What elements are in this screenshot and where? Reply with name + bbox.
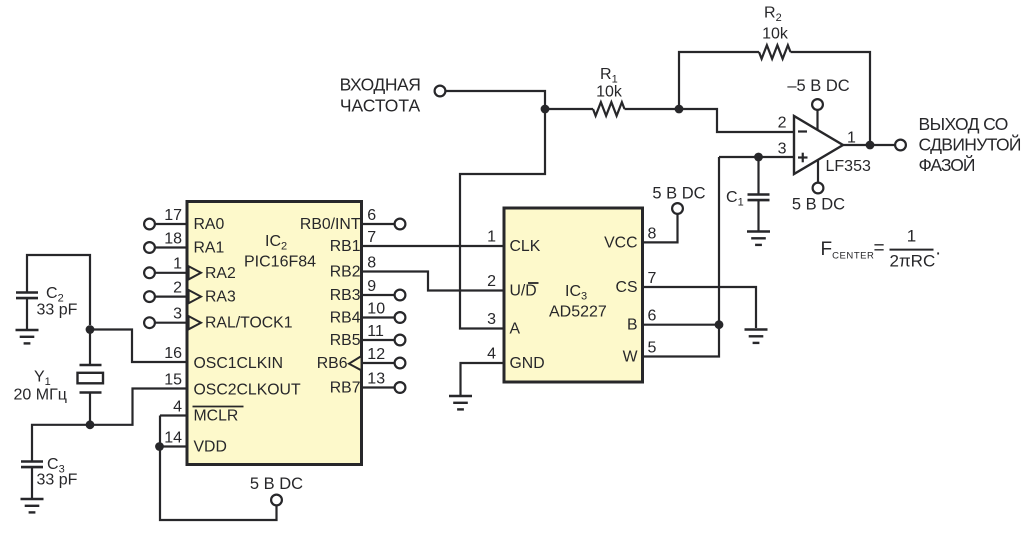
wire to op-amp non-inverting input — [719, 156, 794, 158]
svg-text:8: 8 — [648, 225, 657, 242]
terminal -5V supply — [812, 99, 823, 110]
wire MCLR-VDD to 5V terminal — [160, 416, 277, 521]
svg-text:LF353: LF353 — [826, 158, 871, 175]
svg-text:17: 17 — [164, 207, 182, 224]
terminal +5V supply (op-amp) — [813, 183, 824, 194]
wire RB2 to IC3 U/D — [361, 272, 505, 291]
capacitor C2 — [16, 293, 38, 299]
pin 9 RB3 — [330, 278, 406, 304]
wire C1 bottom lead — [757, 200, 759, 230]
pin 6 RB0/INT — [300, 207, 405, 233]
svg-text:RAL/TOCK1: RAL/TOCK1 — [205, 315, 293, 332]
svg-text:6: 6 — [367, 207, 376, 224]
node output junction — [866, 141, 875, 150]
pin 16 OSC1CLKIN label — [164, 345, 283, 372]
svg-text:2πRC: 2πRC — [890, 252, 936, 271]
node R1/R2/op-amp junction — [675, 105, 684, 114]
svg-text:1: 1 — [907, 227, 916, 246]
svg-text:3: 3 — [173, 306, 182, 323]
pin 13 RB7 — [330, 370, 406, 396]
wire RB1 to IC3 CLK — [361, 245, 505, 247]
node VDD junction — [155, 442, 164, 451]
svg-text:MCLR: MCLR — [194, 408, 239, 425]
wire C2 bottom lead — [26, 298, 28, 329]
svg-text:14: 14 — [164, 429, 182, 446]
svg-text:4: 4 — [487, 346, 496, 363]
op-amp plus symbol — [798, 153, 808, 163]
svg-text:1: 1 — [173, 256, 182, 273]
svg-text:OSC1CLKIN: OSC1CLKIN — [194, 355, 284, 372]
svg-text:RB4: RB4 — [330, 310, 361, 327]
svg-text:U/D: U/D — [510, 283, 537, 300]
svg-text:20 МГц: 20 МГц — [14, 387, 67, 404]
svg-text:RA1: RA1 — [194, 240, 225, 257]
svg-text:RB7: RB7 — [330, 380, 361, 397]
wire C2 top lead to crystal node — [27, 255, 90, 325]
svg-text:VDD: VDD — [194, 439, 227, 456]
svg-text:1: 1 — [487, 229, 496, 246]
svg-text:15: 15 — [164, 371, 182, 388]
svg-text:7: 7 — [367, 229, 376, 246]
svg-text:W: W — [623, 349, 638, 366]
op-amp minus symbol — [798, 130, 807, 132]
svg-text:RA3: RA3 — [205, 289, 236, 306]
svg-text:.: . — [936, 239, 941, 260]
wire crystal node to C3 — [32, 425, 90, 461]
IC3 pin 2 U/D — [487, 273, 538, 300]
svg-text:A: A — [510, 321, 521, 338]
pin 8 RB2 — [330, 254, 377, 280]
op-amp U1 LF353 power wires — [816, 110, 818, 131]
svg-text:8: 8 — [367, 254, 376, 271]
svg-text:ЧАСТОТА: ЧАСТОТА — [340, 96, 421, 116]
pin 3 RAL/TOCK1 terminal — [144, 306, 293, 332]
svg-text:5 В DC: 5 В DC — [652, 185, 705, 203]
pin 10 RB4 — [330, 300, 406, 326]
pin 7 RB1 — [330, 229, 377, 255]
svg-text:RA0: RA0 — [194, 216, 225, 233]
ground below C1 — [747, 232, 770, 245]
svg-text:RB1: RB1 — [330, 238, 361, 255]
svg-text:OSC2CLKOUT: OSC2CLKOUT — [194, 382, 301, 399]
svg-text:VCC: VCC — [604, 234, 637, 251]
svg-text:ФАЗОЙ: ФАЗОЙ — [919, 154, 975, 175]
svg-text:13: 13 — [367, 370, 385, 387]
svg-text:2: 2 — [487, 273, 496, 290]
svg-text:2: 2 — [173, 279, 182, 296]
svg-text:5 В DC: 5 В DC — [250, 475, 303, 493]
wire crystal top to OSC1CLKIN pin 16 — [90, 330, 188, 363]
svg-text:18: 18 — [164, 230, 182, 247]
svg-text:33 pF: 33 pF — [37, 472, 78, 489]
svg-text:RB3: RB3 — [330, 287, 361, 304]
svg-text:CLK: CLK — [510, 238, 541, 255]
ground below C3 — [21, 499, 44, 512]
pin 14 VDD — [160, 429, 227, 455]
op-amp U1 LF353 triangle — [794, 116, 843, 174]
svg-text:2: 2 — [778, 115, 787, 132]
terminal input frequency — [435, 86, 446, 97]
wire IC3 B to node — [641, 324, 719, 326]
wire node to R1 left lead — [545, 108, 593, 110]
capacitor C1 — [748, 195, 770, 201]
wire feedback node up to R2 — [679, 52, 759, 109]
IC3 pin 6 B — [627, 308, 657, 334]
pin 4 MCLR — [160, 398, 244, 424]
pin 18 RA1 terminal — [144, 230, 224, 256]
svg-text:RB5: RB5 — [330, 332, 361, 349]
svg-text:AD5227: AD5227 — [549, 304, 607, 321]
svg-text:10: 10 — [367, 300, 385, 317]
node B/W junction — [715, 320, 724, 329]
ground for IC3 GND — [449, 396, 472, 409]
pin 15 OSC2CLKOUT label — [164, 371, 301, 398]
terminal 5V supply for PIC — [271, 495, 282, 506]
svg-text:GND: GND — [510, 355, 545, 372]
node +input/C1 junction — [754, 153, 763, 162]
IC U3 AD5227 body — [504, 208, 643, 382]
svg-text:7: 7 — [648, 270, 657, 287]
wire R2 to output node — [791, 52, 871, 145]
svg-text:ВЫХОД СО: ВЫХОД СО — [919, 114, 1008, 134]
svg-text:RA2: RA2 — [205, 265, 236, 282]
svg-text:3: 3 — [778, 141, 787, 158]
node input/R1 junction — [541, 105, 550, 114]
node crystal top (OSC1CLKIN net) — [86, 325, 95, 334]
node crystal bottom (OSC2CLKOUT net) — [86, 420, 95, 429]
IC3 pin 1 CLK — [487, 229, 541, 256]
resistor R1 — [593, 102, 625, 116]
svg-text:3: 3 — [487, 311, 496, 328]
svg-text:12: 12 — [367, 346, 385, 363]
wire OSC2CLKOUT pin 15 to crystal bottom — [90, 389, 188, 425]
IC3 pin 5 W — [623, 340, 657, 366]
svg-text:16: 16 — [164, 345, 182, 362]
ground below C2 — [16, 330, 39, 343]
svg-text:6: 6 — [648, 308, 657, 325]
svg-text:9: 9 — [367, 278, 376, 295]
ground for CS — [745, 330, 768, 343]
wire input terminal to R1 node — [446, 91, 546, 109]
IC U2 PIC16F84 body — [187, 202, 362, 465]
resistor R2 — [759, 45, 791, 59]
pin 2 RA3 terminal — [144, 279, 236, 305]
IC3 pin 4 GND — [487, 346, 545, 373]
svg-text:11: 11 — [367, 323, 384, 340]
svg-text:10k: 10k — [596, 84, 623, 101]
wire input node to IC3 pin A — [460, 109, 545, 329]
svg-text:B: B — [627, 317, 638, 334]
svg-text:RB0/INT: RB0/INT — [300, 216, 361, 233]
crystal Y1 — [78, 330, 104, 426]
pin 17 RA0 terminal — [144, 207, 224, 233]
pin 11 RB5 — [330, 323, 406, 349]
IC3 pin 8 VCC — [604, 225, 656, 251]
wire IC3 CS to ground — [641, 287, 756, 328]
svg-text:10k: 10k — [762, 26, 789, 43]
pin 1 RA2 terminal — [144, 256, 236, 282]
capacitor C3 — [21, 462, 43, 468]
svg-text:33 pF: 33 pF — [37, 302, 78, 319]
wire C3 bottom lead — [31, 467, 33, 498]
wire IC3 W up to op-amp + input — [641, 157, 719, 357]
wire C1 top lead — [757, 157, 759, 194]
svg-text:PIC16F84: PIC16F84 — [244, 254, 316, 271]
svg-text:RB6: RB6 — [317, 355, 348, 372]
svg-text:=: = — [874, 238, 885, 259]
pin 12 RB6 — [317, 346, 406, 372]
svg-text:5 В DC: 5 В DC — [792, 196, 845, 214]
wire op-amp output — [843, 144, 895, 146]
wire IC3 VCC to 5V terminal — [641, 214, 678, 242]
wire IC3 GND pin to ground — [461, 363, 506, 395]
formula Fcenter = 1/(2*pi*RC) — [821, 227, 941, 271]
svg-text:RB2: RB2 — [330, 264, 361, 281]
terminal output — [895, 140, 906, 151]
svg-text:5: 5 — [648, 340, 657, 357]
svg-text:4: 4 — [173, 398, 182, 415]
IC3 pin 3 A — [487, 311, 520, 338]
svg-text:CS: CS — [616, 279, 638, 296]
terminal 5V supply for IC3 — [672, 203, 683, 214]
svg-text:ВХОДНАЯ: ВХОДНАЯ — [340, 75, 421, 95]
wire feedback node to inverting input — [679, 109, 795, 132]
wire R1 right lead to feedback node — [625, 108, 680, 110]
svg-text:СДВИНУТОЙ: СДВИНУТОЙ — [919, 134, 1021, 155]
svg-text:–5 В DC: –5 В DC — [787, 77, 849, 95]
IC3 pin 7 CS — [616, 270, 657, 296]
